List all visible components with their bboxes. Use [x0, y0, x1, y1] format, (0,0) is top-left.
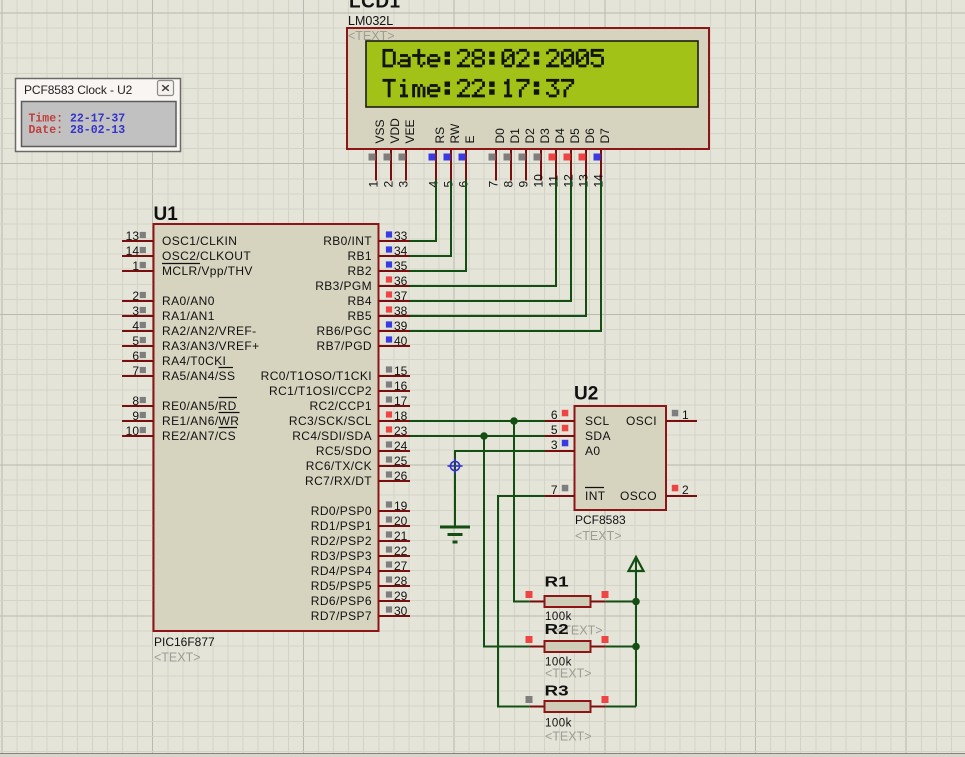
svg-text:D4: D4 — [553, 128, 567, 144]
svg-text:2: 2 — [382, 181, 396, 188]
junction node R2/power — [632, 643, 640, 651]
svg-text:4: 4 — [427, 181, 441, 188]
resistor R3 100k — [526, 696, 609, 712]
svg-text:LM032L: LM032L — [348, 14, 393, 28]
svg-text:RE0/AN5/RD: RE0/AN5/RD — [162, 399, 237, 413]
svg-text:12: 12 — [562, 174, 576, 188]
U1 pin 40 (RB7/PGD) — [317, 334, 410, 353]
wire R3 right to power rail — [606, 706, 636, 708]
LCD1 pin 11 (D4) — [547, 128, 568, 188]
svg-text:28-02-13: 28-02-13 — [70, 124, 125, 137]
svg-text:6: 6 — [457, 181, 471, 188]
wire LCD D6 to U1 RB5 — [410, 180, 586, 317]
svg-text:13: 13 — [126, 229, 140, 243]
svg-text:RC6/TX/CK: RC6/TX/CK — [306, 459, 372, 473]
LCD1 pin 9 (D2) — [517, 128, 538, 188]
svg-text:9: 9 — [517, 181, 531, 188]
svg-text:D1: D1 — [508, 128, 522, 144]
svg-text:20: 20 — [394, 514, 408, 528]
svg-text:24: 24 — [394, 439, 408, 453]
svg-text:35: 35 — [394, 259, 408, 273]
svg-text:INT: INT — [585, 489, 606, 503]
svg-text:28: 28 — [394, 574, 408, 588]
svg-text:RB4: RB4 — [347, 294, 372, 308]
U1 pin 18 (RC3/SCK/SCL) — [289, 409, 410, 428]
LCD1 pin 8 (D1) — [502, 128, 523, 188]
svg-text:25: 25 — [394, 454, 408, 468]
junction node R1/power — [632, 598, 640, 606]
wire U1 RC4/SDI/SDA to U2 SDA (net SDA) — [410, 435, 545, 437]
U1 pin 22 (RD3/PSP3) — [311, 544, 410, 563]
svg-text:2: 2 — [132, 289, 139, 303]
U1 pin 23 (RC4/SDI/SDA) — [292, 424, 410, 443]
IC U2 PCF8583 body — [575, 406, 667, 510]
svg-text:7: 7 — [487, 181, 501, 188]
svg-text:17: 17 — [394, 394, 408, 408]
wire LCD D5 to U1 RB4 — [410, 180, 571, 302]
svg-text:RB1: RB1 — [347, 249, 372, 263]
U2 pin 1 (OSCI) — [626, 408, 697, 428]
svg-text:27: 27 — [394, 559, 408, 573]
svg-text:11: 11 — [547, 175, 561, 188]
U1 overline WR — [219, 412, 240, 414]
svg-text:VSS: VSS — [373, 119, 387, 143]
U1 overline MCLR — [162, 263, 200, 265]
svg-text:OSC2/CLKOUT: OSC2/CLKOUT — [162, 249, 251, 263]
U2 pin 6 (SCL) — [545, 408, 610, 428]
svg-text:PCF8583: PCF8583 — [575, 513, 626, 527]
U1 pin 36 (RB3/PGM) — [315, 274, 410, 293]
svg-text:RC1/T1OSI/CCP2: RC1/T1OSI/CCP2 — [269, 384, 372, 398]
U1 pin 20 (RD1/PSP1) — [311, 514, 410, 533]
svg-text:26: 26 — [394, 469, 408, 483]
svg-text:RD2/PSP2: RD2/PSP2 — [311, 534, 372, 548]
resistor R1 100k — [526, 591, 609, 607]
svg-text:RE1/AN6/WR: RE1/AN6/WR — [162, 414, 239, 428]
IC U1 PIC16F877 body — [154, 224, 379, 631]
LCD screen text line 2 "Time:22:17:37" — [383, 79, 575, 97]
svg-text:RB5: RB5 — [347, 309, 372, 323]
wire LCD D4 to U1 RB3 — [410, 180, 556, 287]
svg-text:SCL: SCL — [585, 414, 610, 428]
popup window PCF8583 Clock - U2 — [16, 79, 181, 152]
svg-text:7: 7 — [551, 483, 558, 497]
resistor R2 100k — [526, 636, 609, 652]
U1 pin 14 (OSC2/CLKOUT) — [122, 244, 251, 263]
svg-text:39: 39 — [394, 319, 408, 333]
LCD1 pin 14 (D7) — [592, 128, 613, 188]
svg-text:14: 14 — [592, 174, 606, 188]
svg-text:OSCO: OSCO — [620, 489, 657, 503]
svg-text:1: 1 — [367, 181, 381, 188]
LCD1 pin 4 (RS) — [427, 127, 448, 188]
svg-text:Date:: Date: — [29, 124, 64, 137]
U2 pin 7 (INT) — [545, 483, 606, 503]
svg-text:14: 14 — [126, 244, 140, 258]
svg-text:2: 2 — [682, 483, 689, 497]
svg-text:30: 30 — [394, 604, 408, 618]
svg-text:OSCI: OSCI — [626, 414, 657, 428]
svg-text:RB6/PGC: RB6/PGC — [317, 324, 372, 338]
U1 overline SS — [219, 367, 234, 369]
svg-text:D7: D7 — [598, 128, 612, 144]
U1 pin 30 (RD7/PSP7) — [311, 604, 410, 623]
svg-text:PIC16F877: PIC16F877 — [154, 635, 215, 649]
svg-text:21: 21 — [394, 529, 408, 543]
voltage probe on A0 net — [448, 459, 463, 474]
svg-text:100k: 100k — [545, 718, 572, 730]
svg-text:34: 34 — [394, 244, 408, 258]
svg-text:18: 18 — [394, 409, 408, 423]
wire R1 right to power rail — [606, 601, 636, 603]
U1 pin 35 (RB2) — [347, 259, 410, 278]
U1 pin 2 (RA0/AN0) — [122, 289, 215, 308]
svg-text:<TEXT>: <TEXT> — [545, 667, 592, 681]
svg-text:15: 15 — [394, 364, 408, 378]
svg-text:RB0/INT: RB0/INT — [323, 234, 372, 248]
svg-text:7: 7 — [132, 364, 139, 378]
LCD1 pin 1 (VSS) — [367, 119, 388, 187]
svg-text:16: 16 — [394, 379, 408, 393]
svg-text:RA5/AN4/SS: RA5/AN4/SS — [162, 369, 235, 383]
U1 pin 8 (RE0/AN5/RD) — [122, 394, 237, 413]
svg-text:U1: U1 — [154, 204, 179, 225]
svg-text:4: 4 — [132, 319, 139, 333]
wire LCD RS to U1 RB0 — [410, 180, 436, 242]
svg-text:RD3/PSP3: RD3/PSP3 — [311, 549, 372, 563]
svg-text:E: E — [463, 135, 477, 143]
svg-text:PCF8583 Clock - U2: PCF8583 Clock - U2 — [24, 83, 133, 97]
LCD1 pin 5 (RW) — [442, 123, 463, 187]
wire SCL junction to R1 left — [514, 421, 530, 602]
svg-text:RA2/AN2/VREF-: RA2/AN2/VREF- — [162, 324, 257, 338]
U1 pin 39 (RB6/PGC) — [317, 319, 410, 338]
LCD screen — [366, 41, 698, 107]
svg-text:10: 10 — [532, 174, 546, 188]
svg-text:29: 29 — [394, 589, 408, 603]
svg-text:D6: D6 — [583, 128, 597, 144]
wire LCD RW to U1 RB1 — [410, 180, 451, 257]
LCD1 pin 13 (D6) — [577, 128, 598, 188]
power symbol (supply arrow) — [629, 557, 644, 571]
svg-text:RA4/T0CKI: RA4/T0CKI — [162, 354, 226, 368]
svg-text:RA1/AN1: RA1/AN1 — [162, 309, 215, 323]
svg-text:<TEXT>: <TEXT> — [545, 730, 592, 744]
U1 pin 4 (RA2/AN2/VREF-) — [122, 319, 257, 338]
U1 pin 29 (RD6/PSP6) — [311, 589, 410, 608]
LCD1 pin 6 (E) — [457, 135, 478, 187]
svg-text:SDA: SDA — [585, 429, 611, 443]
svg-text:R1: R1 — [545, 574, 569, 590]
wire LCD D7 to U1 RB6 — [410, 180, 601, 332]
svg-text:23: 23 — [394, 424, 408, 438]
svg-text:VDD: VDD — [388, 118, 402, 144]
LCD1 pin 2 (VDD) — [382, 118, 403, 188]
svg-text:6: 6 — [551, 408, 558, 422]
LCD1 pin 3 (VEE) — [397, 119, 418, 187]
U1 pin 13 (OSC1/CLKIN) — [122, 229, 237, 248]
svg-text:RS: RS — [433, 127, 447, 144]
LCD1 pin 10 (D3) — [532, 128, 553, 188]
svg-text:3: 3 — [132, 304, 139, 318]
U1 pin 19 (RD0/PSP0) — [311, 499, 410, 518]
wire R2 right to power rail — [606, 646, 636, 648]
junction node SCL — [510, 417, 518, 425]
U1 pin 17 (RC2/CCP1) — [309, 394, 410, 413]
U1 pin 15 (RC0/T1OSO/T1CKI) — [261, 364, 410, 383]
U1 pin 3 (RA1/AN1) — [122, 304, 215, 323]
wire U1 RC3/SCK/SCL to U2 SCL (net SCL) — [410, 420, 545, 422]
wire LCD E to U1 RB2 — [410, 180, 466, 272]
U1 pin 9 (RE1/AN6/WR) — [122, 409, 239, 428]
U1 pin 37 (RB4) — [347, 289, 410, 308]
svg-text:LCD1: LCD1 — [349, 0, 401, 13]
U1 pin 27 (RD4/PSP4) — [311, 559, 410, 578]
U1 pin 7 (RA5/AN4/SS) — [122, 364, 235, 383]
svg-text:1: 1 — [132, 259, 139, 273]
svg-text:RC3/SCK/SCL: RC3/SCK/SCL — [289, 414, 372, 428]
svg-text:10: 10 — [126, 424, 140, 438]
U1 pin 6 (RA4/T0CKI) — [122, 349, 226, 368]
svg-text:<TEXT>: <TEXT> — [154, 651, 201, 665]
U1 pin 1 (MCLR/Vpp/THV) — [122, 259, 253, 278]
svg-text:3: 3 — [551, 438, 558, 452]
svg-text:13: 13 — [577, 174, 591, 188]
wire U2 A0 to ground — [455, 451, 545, 527]
svg-text:5: 5 — [551, 423, 558, 437]
svg-text:R3: R3 — [545, 683, 569, 699]
svg-text:RW: RW — [448, 123, 462, 143]
svg-text:8: 8 — [502, 181, 516, 188]
LCD LCD1 body — [347, 28, 709, 149]
U1 pin 16 (RC1/T1OSI/CCP2) — [269, 379, 410, 398]
svg-text:VEE: VEE — [403, 119, 417, 143]
wire SDA junction to R2 left — [484, 436, 530, 647]
svg-text:D0: D0 — [493, 128, 507, 144]
svg-text:RE2/AN7/CS: RE2/AN7/CS — [162, 429, 236, 443]
svg-text:6: 6 — [132, 349, 139, 363]
U2 pin 3 (A0) — [545, 438, 600, 458]
svg-text:8: 8 — [132, 394, 139, 408]
svg-text:RC4/SDI/SDA: RC4/SDI/SDA — [292, 429, 372, 443]
svg-text:A0: A0 — [585, 444, 600, 458]
LCD screen text line 1 "Date:28:02:2005" — [383, 49, 604, 67]
U1 pin 33 (RB0/INT) — [323, 229, 410, 248]
svg-text:RC5/SDO: RC5/SDO — [316, 444, 372, 458]
U2 pin 5 (SDA) — [545, 423, 611, 443]
svg-text:OSC1/CLKIN: OSC1/CLKIN — [162, 234, 237, 248]
wire power rail vertical — [635, 571, 637, 707]
svg-text:RB3/PGM: RB3/PGM — [315, 279, 372, 293]
svg-text:D5: D5 — [568, 128, 582, 144]
U1 pin 5 (RA3/AN3/VREF+) — [122, 334, 260, 353]
svg-text:RB7/PGD: RB7/PGD — [317, 339, 372, 353]
svg-text:19: 19 — [394, 499, 408, 513]
svg-text:RD0/PSP0: RD0/PSP0 — [311, 504, 372, 518]
svg-text:36: 36 — [394, 274, 408, 288]
svg-text:RD6/PSP6: RD6/PSP6 — [311, 594, 372, 608]
LCD1 pin 7 (D0) — [487, 128, 508, 188]
LCD1 pin 12 (D5) — [562, 128, 583, 188]
svg-text:MCLR/Vpp/THV: MCLR/Vpp/THV — [162, 264, 253, 278]
svg-text:22: 22 — [394, 544, 408, 558]
svg-text:RC7/RX/DT: RC7/RX/DT — [305, 474, 372, 488]
svg-text:RD7/PSP7: RD7/PSP7 — [311, 609, 372, 623]
svg-text:RD4/PSP4: RD4/PSP4 — [311, 564, 372, 578]
svg-text:3: 3 — [397, 181, 411, 188]
svg-text:5: 5 — [132, 334, 139, 348]
svg-text:RB2: RB2 — [347, 264, 372, 278]
svg-text:33: 33 — [394, 229, 408, 243]
U1 pin 34 (RB1) — [347, 244, 410, 263]
U1 pin 24 (RC5/SDO) — [316, 439, 410, 458]
svg-text:38: 38 — [394, 304, 408, 318]
U1 pin 25 (RC6/TX/CK) — [306, 454, 410, 473]
svg-text:9: 9 — [132, 409, 139, 423]
svg-text:5: 5 — [442, 181, 456, 188]
svg-text:RC0/T1OSO/T1CKI: RC0/T1OSO/T1CKI — [261, 369, 372, 383]
svg-text:RD5/PSP5: RD5/PSP5 — [311, 579, 372, 593]
U1 pin 26 (RC7/RX/DT) — [305, 469, 410, 488]
wire U2 INT to R3 left — [498, 496, 545, 707]
U1 pin 28 (RD5/PSP5) — [311, 574, 410, 593]
U1 pin 21 (RD2/PSP2) — [311, 529, 410, 548]
svg-text:RA0/AN0: RA0/AN0 — [162, 294, 215, 308]
svg-text:D2: D2 — [523, 128, 537, 144]
U1 overline RD — [219, 397, 238, 399]
svg-text:U2: U2 — [574, 384, 598, 405]
junction node SDA — [480, 432, 488, 440]
U2 pin 2 (OSCO) — [620, 483, 697, 503]
svg-text:37: 37 — [394, 289, 408, 303]
U1 pin 38 (RB5) — [347, 304, 410, 323]
svg-text:1: 1 — [682, 408, 689, 422]
bottom chrome edge — [0, 754, 965, 757]
U1 overline CS — [219, 427, 238, 429]
svg-text:<TEXT>: <TEXT> — [575, 529, 622, 543]
U2 overline INT — [585, 487, 604, 489]
svg-text:RA3/AN3/VREF+: RA3/AN3/VREF+ — [162, 339, 260, 353]
svg-text:RC2/CCP1: RC2/CCP1 — [309, 399, 372, 413]
U1 pin 10 (RE2/AN7/CS) — [122, 424, 236, 443]
svg-text:D3: D3 — [538, 128, 552, 144]
svg-text:RD1/PSP1: RD1/PSP1 — [311, 519, 372, 533]
svg-text:R2: R2 — [545, 621, 569, 637]
ground symbol — [440, 527, 470, 542]
svg-text:40: 40 — [394, 334, 408, 348]
